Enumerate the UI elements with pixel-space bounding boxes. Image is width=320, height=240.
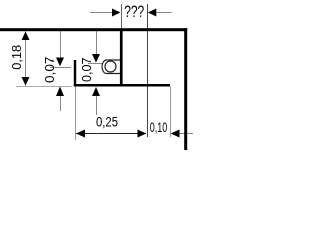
step vertical x75 xyxy=(74,60,76,86)
step horizontal y85 xyxy=(74,84,170,87)
dimension 0,25 left arrow xyxy=(76,130,85,138)
wall top xyxy=(0,28,187,31)
wall right xyxy=(184,28,187,150)
dimension ??? left tail xyxy=(90,12,112,14)
dimension ??? right arrow xyxy=(148,9,157,17)
svg-text:0,10: 0,10 xyxy=(150,119,168,135)
dimension 0,18 arrow down xyxy=(22,77,30,86)
dimension 0,10 right tail xyxy=(180,133,194,135)
dimension 0,07 #2 lower tail xyxy=(96,96,98,115)
slot outline xyxy=(102,60,121,74)
dimension 0,18 line xyxy=(25,32,27,86)
extension line bottom surface left xyxy=(16,86,72,88)
extension line slot top left xyxy=(88,63,102,65)
dimension 0,25 right arrow xyxy=(138,130,147,138)
dimension 0,07 #1 upper arrow xyxy=(56,58,64,67)
svg-text:0,07: 0,07 xyxy=(80,57,94,82)
svg-text:0,25: 0,25 xyxy=(96,114,118,130)
dimension 0,07 #2 lower arrow xyxy=(92,87,100,96)
svg-text:0,18: 0,18 xyxy=(10,45,24,70)
extension line x147 full height xyxy=(147,4,149,137)
dimension 0,10 right arrow xyxy=(171,130,180,138)
dimension ??? left arrow xyxy=(112,9,121,17)
extension line x170 below step xyxy=(170,87,172,138)
extension line x75 below step xyxy=(75,87,77,141)
dimension 0,07 #1 lower tail xyxy=(60,96,62,111)
dimension 0,25 line xyxy=(76,133,146,135)
slot circle xyxy=(105,61,116,72)
dimension 0,07 #1 upper tail xyxy=(60,31,62,58)
dimension 0,07 #2 upper tail xyxy=(96,31,98,54)
dimension ??? right tail xyxy=(156,12,172,14)
svg-text:???: ??? xyxy=(124,3,144,21)
extension line slot centre left xyxy=(50,67,71,69)
svg-text:0,07: 0,07 xyxy=(43,56,57,83)
extension line x121 above wall xyxy=(121,4,123,29)
edge vertical x121 xyxy=(120,31,123,87)
dimension 0,07 #2 upper arrow xyxy=(92,54,100,63)
dimension 0,18 arrow up xyxy=(22,32,30,41)
dimension 0,07 #1 lower arrow xyxy=(56,87,64,97)
